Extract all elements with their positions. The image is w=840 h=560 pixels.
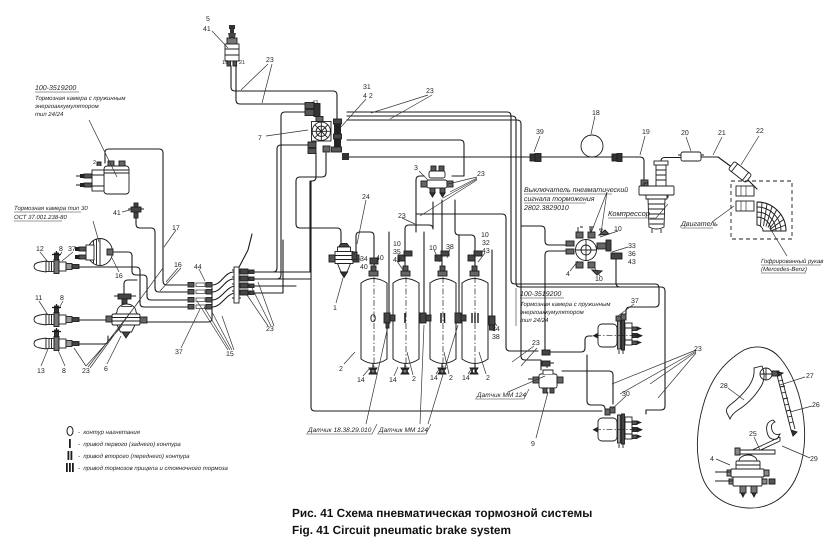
wire tank3-4 connector (456, 317, 462, 319)
linkage rod 26 (777, 372, 797, 436)
svg-text:- привод первого (заднего) ко: - привод первого (заднего) контура (78, 441, 181, 448)
legend item 0 (67, 427, 73, 436)
leader 4 trailer (716, 459, 730, 465)
svg-text:18: 18 (592, 110, 600, 117)
svg-text:41: 41 (203, 26, 211, 33)
svg-text:2: 2 (486, 375, 490, 382)
leader 31-42 (341, 99, 366, 127)
wire tank4 bottom link (474, 364, 476, 372)
leader 23 mid (402, 218, 415, 224)
leader sensor 18.38 (366, 326, 388, 424)
wire right of tank4 riser (491, 250, 493, 330)
svg-text:энергоаккумулятором: энергоаккумулятором (35, 104, 99, 110)
hose bundle S-curves through frame plate (212, 272, 310, 285)
svg-text:40: 40 (376, 255, 384, 262)
svg-text:4: 4 (566, 271, 570, 278)
leader 23 left-mid fan (86, 268, 163, 368)
svg-text:39: 39 (536, 129, 544, 136)
legend item III (66, 463, 68, 472)
lever 25 hook (767, 420, 780, 439)
svg-text:тип 24/24: тип 24/24 (520, 317, 549, 324)
svg-text:19: 19 (642, 129, 650, 136)
wire tank1 bottom link (372, 364, 374, 372)
leader 23 right of 3 (420, 177, 477, 216)
svg-text:10: 10 (481, 232, 489, 239)
leader 33-36-43 (612, 247, 628, 252)
four-circuit protection valve 7 (305, 103, 342, 154)
svg-text:14: 14 (430, 375, 438, 382)
svg-text:31: 31 (363, 84, 371, 91)
engine dashed box (731, 181, 792, 239)
svg-text:41: 41 (113, 210, 121, 217)
leader 23 trailer fan (612, 350, 696, 398)
svg-text:23: 23 (82, 368, 90, 375)
trailer control section outline (697, 347, 804, 508)
svg-text:Тормозная камера с пружинным: Тормозная камера с пружинным (520, 301, 611, 308)
svg-text:22: 22 (756, 128, 764, 135)
svg-text:27: 27 (806, 373, 814, 380)
wire long vertical between tanks 3 (458, 235, 460, 318)
wire tank2 bottom link (404, 364, 406, 372)
svg-text:16: 16 (115, 273, 123, 280)
svg-text:сигнала торможения: сигнала торможения (524, 196, 595, 203)
brake chamber with energy accumulator 30 (593, 407, 644, 448)
wire circuit II from valve 7 to right section (347, 116, 665, 414)
wire big loop left vertical and bottom rail (311, 153, 602, 411)
wire circuit III from valve 7 down right side (347, 120, 541, 370)
leader 5-41 (212, 31, 228, 48)
svg-text:100-3519200: 100-3519200 (35, 85, 76, 92)
wire diagonal over plate (237, 234, 252, 271)
svg-text:Тормозная камера с пружинным: Тормозная камера с пружинным (35, 95, 126, 102)
svg-text:2: 2 (93, 160, 96, 166)
svg-text:34: 34 (360, 256, 368, 263)
svg-text:33: 33 (628, 243, 636, 250)
wire valve 3 to line 24 (452, 168, 464, 176)
elbow fitting at valve 7 bottom outlet (342, 153, 349, 160)
svg-text:10: 10 (393, 241, 401, 248)
leader 34-40 (357, 259, 377, 271)
trailer air distributor 4 (715, 455, 775, 497)
svg-text:Компрессор: Компрессор (608, 209, 650, 218)
union fitting on compressor line (612, 154, 622, 162)
leader 23 right sect (512, 346, 537, 366)
flexible hose 22 (728, 161, 751, 182)
leader 21 (713, 137, 722, 155)
wire feed down to valve 9 fittings (416, 214, 538, 351)
svg-text:30: 30 (622, 391, 630, 398)
svg-text:16: 16 (174, 262, 182, 269)
svg-text:4 2: 4 2 (363, 93, 373, 100)
svg-text:Двигатель: Двигатель (680, 221, 718, 228)
wire valve 3 left to long vertical (416, 176, 424, 232)
wire tank2 top to unloader valve 3 (405, 202, 433, 275)
wire tank1 inter-tank connector (387, 317, 393, 319)
leader 30 (612, 396, 626, 409)
leader 10-38 (434, 249, 450, 262)
svg-text:2802.3829010: 2802.3829010 (523, 205, 569, 212)
svg-text:37: 37 (631, 298, 639, 305)
leader 29 (782, 446, 810, 458)
leader 17 (164, 230, 176, 247)
svg-text:23: 23 (266, 57, 274, 64)
wire tank4 top to valve 3 right (455, 200, 475, 275)
svg-text:(Mercedes-Benz): (Mercedes-Benz) (761, 266, 807, 273)
svg-text:23: 23 (532, 340, 540, 347)
svg-text:- привод второго (переднего): - привод второго (переднего) контура (78, 453, 190, 460)
leader switch text (590, 192, 608, 233)
wire front axle assembly A to bundle (78, 267, 187, 307)
wire regulator top to valve 5 line (296, 181, 341, 248)
svg-text:35: 35 (393, 249, 401, 256)
svg-text:1: 1 (333, 305, 337, 312)
svg-text:Датчик ММ 124: Датчик ММ 124 (476, 392, 526, 399)
leader 7 (266, 130, 308, 136)
fitting 34-38 right of tank 4 (489, 316, 495, 330)
svg-text:29: 29 (810, 456, 818, 463)
leader 18 (591, 116, 595, 134)
leader 28 (728, 388, 744, 400)
svg-text:8: 8 (59, 246, 63, 253)
svg-text:40: 40 (360, 264, 368, 271)
svg-text:- привод тормозов прицепа и с: - привод тормозов прицепа и стояночного … (78, 465, 228, 472)
unloader valve 3 (421, 166, 453, 197)
leader 26 (790, 406, 812, 412)
wire down to chamber 30 left fittings (587, 355, 605, 409)
wire valve 9 fittings to chamber 37 left port (554, 336, 592, 352)
svg-text:23: 23 (398, 213, 406, 220)
wire vertical pair down to hose bundle 2 (253, 112, 305, 279)
svg-text:Fig. 41 Circuit pneumatic brak: Fig. 41 Circuit pneumatic brake system (292, 523, 511, 537)
svg-text:17: 17 (172, 225, 180, 232)
svg-text:- контур нагнетания: - контур нагнетания (78, 430, 141, 436)
union fitting 39 (530, 154, 541, 162)
svg-text:8: 8 (60, 295, 64, 302)
pressure limiting valve 9 (528, 365, 563, 393)
leader 23 upper mid (371, 95, 432, 119)
svg-text:энергоаккумулятором: энергоаккумулятором (520, 310, 584, 316)
svg-text:37: 37 (175, 349, 183, 356)
connecting rod 29 (748, 437, 780, 455)
svg-text:26: 26 (812, 402, 820, 409)
LBL_START (39, 31, 812, 465)
leader 39 (534, 136, 540, 152)
leader 25 (754, 437, 760, 450)
wire compressor supply line (345, 157, 644, 183)
svg-text:44: 44 (194, 264, 202, 271)
svg-text:Гофрированный рукав: Гофрированный рукав (761, 258, 823, 265)
leader 6 (107, 336, 121, 364)
wire hose 22 to engine (747, 179, 757, 189)
leader 23 below plate (247, 282, 274, 326)
leader engine text (712, 206, 734, 222)
wire long vertical between tanks 2 (423, 232, 425, 318)
four-circuit protection valve 4 (566, 227, 622, 275)
wheel brake cylinder assembly C (34, 328, 79, 351)
wire long vertical between tanks 1 (388, 232, 390, 318)
leader 27 (780, 377, 805, 385)
leaders tank labels 14-2 (344, 352, 486, 376)
leader 41 left (122, 210, 130, 212)
wire regulator to condensation loop (348, 261, 356, 263)
svg-text:10: 10 (429, 245, 437, 252)
svg-text:19: 19 (222, 60, 228, 66)
muffler 20 (678, 152, 704, 161)
leader 16-44 bundle (160, 268, 205, 291)
wire protection valve 4 lower left port (545, 251, 569, 355)
air distributor linkage arm (735, 448, 775, 455)
wire from tow valve 5 right port down (236, 66, 305, 104)
legend item II (68, 451, 70, 460)
svg-text:15: 15 (226, 351, 234, 358)
leader 22 (741, 136, 759, 165)
svg-text:23: 23 (426, 88, 434, 95)
svg-text:14: 14 (357, 377, 365, 384)
svg-text:11: 11 (35, 295, 42, 302)
leader 4 (570, 261, 578, 271)
svg-text:14: 14 (389, 377, 397, 384)
leader chamber30 text (93, 221, 99, 242)
wire from tee 41 down (136, 216, 187, 292)
svg-text:23: 23 (266, 326, 274, 333)
leader 11-8 (39, 301, 63, 315)
svg-text:21: 21 (239, 60, 245, 66)
svg-text:13: 13 (37, 368, 45, 375)
svg-text:32: 32 (482, 240, 490, 247)
svg-text:43: 43 (312, 100, 318, 106)
leader 23 top (241, 64, 272, 103)
wire circuit I from valve 7 to right section (347, 112, 659, 314)
check valve between tanks 3-4 (455, 313, 466, 323)
svg-text:43: 43 (628, 259, 636, 266)
wire from tow valve 5 left port down (231, 66, 337, 119)
svg-text:Тормозная камера тип 30: Тормозная камера тип 30 (14, 205, 88, 212)
leader 37 right (618, 304, 634, 316)
svg-text:20: 20 (681, 130, 689, 137)
leader 37 bundle (181, 309, 200, 348)
leader 1 (336, 278, 343, 303)
leader 24 (357, 200, 366, 244)
wire right section feed from protection valve 4 (616, 259, 661, 287)
svg-text:21: 21 (718, 130, 726, 137)
svg-text:38: 38 (492, 334, 500, 341)
legend item I (69, 439, 71, 448)
wire assembly C to brake valve 6 (78, 336, 108, 344)
leader 13-8-23 (41, 348, 86, 366)
wire tank3 bottom link (441, 364, 443, 372)
wire riser right of plate up (282, 240, 284, 293)
svg-text:28: 28 (720, 383, 728, 390)
wheel brake cylinder assembly B (34, 304, 79, 327)
svg-text:Выключатель пневматический: Выключатель пневматический (524, 186, 628, 194)
air intake filter 18 (581, 135, 603, 157)
leader 10-32-43 (478, 253, 485, 262)
brake pedal 28 (726, 366, 764, 419)
leader 10-35-43 group1 (397, 261, 403, 270)
brake chamber with energy accumulator 37 (593, 314, 644, 354)
svg-text:Датчик ММ 124: Датчик ММ 124 (378, 427, 428, 434)
wire tank2-3 connector (419, 317, 430, 319)
check valve between tanks 1-2 (384, 313, 395, 328)
svg-text:10: 10 (595, 276, 603, 283)
frame plate bracket (232, 267, 241, 303)
hose coupling 44 row (188, 283, 212, 310)
svg-text:37: 37 (68, 246, 76, 253)
leader 10 right (594, 231, 618, 276)
tow hitch valve 5 (225, 25, 239, 66)
leader 15 fan (197, 301, 234, 350)
wire assembly B to brake valve 6 (78, 319, 114, 321)
wire protection valve 4 left ports (521, 226, 569, 245)
leader 20 (686, 137, 691, 151)
svg-text:8: 8 (62, 368, 66, 375)
svg-text:6: 6 (104, 366, 108, 373)
air reservoir tank 1 (circuit 0) (361, 266, 387, 374)
svg-text:0: 0 (370, 313, 376, 325)
wire tank3 top riser (441, 200, 443, 275)
svg-text:5: 5 (206, 16, 210, 23)
brake chamber with energy accumulator (top left, pos 16) (76, 161, 129, 194)
wire second loop from valve 7 bottom (296, 153, 326, 181)
leader 12-8-37 (40, 252, 73, 262)
svg-text:9: 9 (531, 441, 535, 448)
compressor (639, 161, 674, 233)
leader 19 (640, 136, 645, 155)
wire bundle riser to comp area (309, 181, 311, 272)
svg-text:36: 36 (628, 251, 636, 258)
wire brake valve 6 right port to riser (138, 288, 212, 322)
tee fitting above valve 6 (114, 294, 136, 304)
svg-text:7: 7 (258, 135, 262, 142)
check valve between tanks 2-3 (420, 313, 431, 323)
leader sensor mm124 right (508, 376, 545, 392)
air reservoir tank 4 (circuit III) (462, 266, 488, 374)
svg-text:3: 3 (414, 165, 418, 172)
wire tee above valve 6 up (124, 280, 137, 296)
wire muffler 20 to pipe 21 (701, 157, 733, 168)
svg-text:34: 34 (492, 326, 500, 333)
air reservoir tank 2 (circuit I) (393, 266, 419, 374)
wire vertical pair down to hose bundle 1 (253, 145, 308, 272)
svg-text:ОСТ 37.001.238-80: ОСТ 37.001.238-80 (14, 214, 67, 221)
svg-text:4: 4 (710, 456, 714, 463)
leader sensor mm124 mid (420, 325, 458, 424)
svg-text:25: 25 (749, 431, 757, 438)
svg-text:23: 23 (477, 171, 485, 178)
pedal valve 27 (760, 368, 779, 380)
leader chamber text top left (89, 120, 117, 177)
svg-text:23: 23 (694, 346, 702, 353)
svg-text:2: 2 (449, 375, 453, 382)
svg-text:2: 2 (339, 366, 343, 373)
fittings above valve 9 (542, 350, 554, 366)
svg-text:14: 14 (462, 375, 470, 382)
svg-text:2: 2 (412, 376, 416, 383)
svg-text:43: 43 (393, 257, 401, 264)
svg-text:Рис. 41 Схема пневматическая т: Рис. 41 Схема пневматическая тормозной с… (292, 506, 592, 520)
wire chamber 30 to bundle (115, 252, 187, 300)
COMP_START (34, 25, 495, 374)
svg-text:38: 38 (446, 244, 454, 251)
pressure regulator 1 (329, 244, 359, 278)
wire from condensation loop to tank1 (356, 232, 374, 275)
svg-text:24: 24 (362, 194, 370, 201)
leader 9 (536, 392, 548, 438)
tee fitting 41 (128, 203, 144, 218)
brake chamber type 30 (left, pos 16) (75, 239, 117, 266)
brake valve 6 (106, 304, 147, 338)
corrugated hose (Mercedes-Benz) (736, 186, 786, 231)
svg-text:43: 43 (482, 248, 490, 255)
svg-text:100-3519200: 100-3519200 (520, 291, 561, 298)
wheel brake cylinder assembly A (front axle) (34, 251, 79, 274)
wire from valve 7 to brake signal switch line (347, 140, 464, 168)
leader hose text (771, 230, 787, 256)
fittings right of frame plate (240, 269, 254, 295)
svg-text:12: 12 (36, 246, 44, 253)
air reservoir tank 3 (circuit II) (430, 266, 456, 374)
svg-text:Датчик 18.38.29.010: Датчик 18.38.29.010 (307, 427, 372, 434)
svg-text:тип 24/24: тип 24/24 (35, 111, 64, 118)
wire chamber 16 supply via line 17 (105, 149, 187, 285)
leader 3 (419, 171, 428, 180)
wire valve 9 to chamber 30 riser (562, 371, 613, 404)
fittings on tank tops (pos 10,43) (352, 251, 482, 264)
wire compressor outlet up (661, 158, 681, 166)
leader 34-38 right (494, 321, 497, 326)
leader 16 chamber30 (112, 258, 119, 272)
svg-text:10: 10 (614, 226, 622, 233)
